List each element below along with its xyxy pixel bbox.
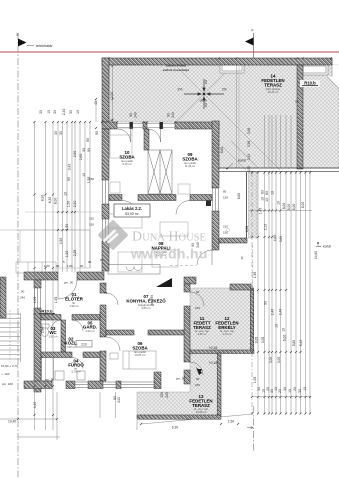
svg-text:1,95: 1,95: [253, 272, 257, 279]
svg-text:90: 90: [129, 113, 133, 117]
svg-text:90: 90: [21, 290, 25, 294]
left dims rotated: [33, 131, 91, 408]
svg-text:40: 40: [240, 256, 244, 260]
svg-text:13,98 m²: 13,98 m²: [196, 410, 207, 414]
svg-text:150: 150: [89, 223, 94, 227]
svg-text:2,00: 2,00: [110, 92, 114, 99]
svg-text:90: 90: [67, 177, 71, 181]
svg-text:150: 150: [223, 196, 228, 200]
window: bath south B: [103, 382, 116, 388]
svg-text:3,05: 3,05: [261, 337, 265, 344]
wall: room 06 bottom with window: [116, 381, 121, 389]
wall: terrace 11/12 south band: [190, 350, 254, 354]
svg-text:10: 10: [261, 197, 265, 201]
hatch strip east of dining nook: [249, 172, 258, 238]
svg-text:pm. 90: pm. 90: [45, 378, 55, 382]
drain point: [203, 93, 205, 95]
svg-text:+0,15: +0,15: [209, 361, 218, 365]
property line E: [18, 33, 27, 478]
wall: R10.b divider on terrace 14: [297, 65, 303, 169]
door arc room09 to nappali: [176, 201, 190, 215]
svg-text:240: 240: [117, 397, 121, 403]
sofa nappali upper: [104, 214, 142, 228]
svg-text:8,00: 8,00: [54, 198, 58, 205]
svg-text:3,00: 3,00: [269, 357, 273, 364]
wc toilet: [42, 328, 49, 337]
svg-text:korlát: korlát: [323, 245, 331, 249]
wall: rooms 10/09 bottom band with door gaps: [109, 195, 122, 201]
svg-text:30: 30: [257, 387, 261, 391]
white corner top right: [328, 65, 339, 88]
svg-text:2%: 2%: [222, 88, 227, 92]
svg-text:90: 90: [56, 264, 60, 268]
door arc room10 to nappali: [122, 201, 138, 217]
svg-text:3,90: 3,90: [247, 166, 251, 173]
window: right wall (80/150): [213, 188, 219, 211]
door arc nappali to dining nook: [197, 250, 212, 265]
svg-text:240: 240: [195, 306, 200, 310]
svg-text:3,40: 3,40: [247, 154, 251, 161]
svg-text:150: 150: [223, 231, 228, 235]
svg-text:2,72 m²: 2,72 m²: [222, 332, 231, 336]
svg-text:10: 10: [288, 389, 292, 393]
door arc kitchen wing to terrace 11: [190, 292, 204, 306]
svg-text:5,79 m²: 5,79 m²: [71, 370, 80, 374]
door wedge terrace13 door: [196, 367, 202, 375]
red boundary line: [0, 51, 339, 53]
svg-text:1,05: 1,05: [253, 377, 257, 384]
svg-text:6,00: 6,00: [283, 335, 287, 342]
wall: terrace 13 bottom band: [137, 353, 221, 419]
svg-text:240: 240: [165, 392, 169, 398]
svg-text:90: 90: [167, 113, 171, 117]
window: left wall upper (150): [103, 180, 109, 204]
svg-text:2,65: 2,65: [79, 154, 83, 161]
svg-text:210: 210: [223, 225, 228, 229]
terrace 14 hatch area (upper): [109, 65, 339, 168]
svg-text:90: 90: [80, 264, 84, 268]
svg-text:40: 40: [94, 101, 98, 105]
svg-text:2,50: 2,50: [73, 151, 77, 158]
svg-text:240: 240: [171, 112, 175, 118]
svg-text:pm. 90: pm. 90: [176, 377, 186, 381]
svg-text:20: 20: [293, 387, 297, 391]
wall: wc-közl / fürdő divider horizontal: [41, 352, 72, 358]
svg-text:90: 90: [86, 138, 90, 142]
neighbour counters: [16, 262, 56, 273]
window: room 06 south: [121, 382, 154, 388]
window: bath south A: [75, 382, 88, 388]
svg-text:6,56: 6,56: [245, 226, 249, 233]
terrace corner diagonals near korlat: [222, 146, 246, 170]
left tick rows: [34, 121, 92, 416]
wall: terrace 14 bottom edge: [219, 168, 339, 171]
desk room 09: [178, 184, 190, 194]
svg-text:14,60: 14,60: [314, 251, 318, 259]
svg-text:R10.b: R10.b: [304, 81, 316, 86]
svg-text:4,40: 4,40: [33, 402, 37, 409]
svg-text:10: 10: [47, 110, 51, 114]
terrace 13 hatch area: [137, 353, 221, 415]
svg-text:2,40: 2,40: [62, 109, 66, 116]
svg-text:10: 10: [82, 173, 86, 177]
left dimension witness lines: [34, 122, 36, 430]
bath sink: [77, 371, 85, 380]
terrace slope diagonal 2: [176, 66, 232, 122]
svg-text:pm. 90: pm. 90: [64, 281, 74, 285]
svg-text:4,50: 4,50: [59, 238, 63, 245]
top-left dims rotated: [39, 92, 175, 121]
bath tub: [42, 357, 54, 381]
svg-text:30: 30: [53, 110, 57, 114]
svg-text:6,60: 6,60: [237, 193, 241, 200]
svg-text:10: 10: [303, 387, 307, 391]
svg-text:1,45: 1,45: [259, 208, 263, 215]
bottom dim line terrace 13: [140, 414, 253, 429]
table nappali: [152, 250, 178, 267]
svg-text:Lakás 2.2.: Lakás 2.2.: [122, 206, 142, 211]
svg-text:telekhatár: telekhatár: [36, 44, 53, 48]
svg-text:11,05 m²: 11,05 m²: [185, 164, 196, 168]
svg-text:+0,15: +0,15: [209, 346, 218, 350]
svg-text:90: 90: [87, 148, 91, 152]
svg-text:10: 10: [64, 192, 68, 196]
svg-text:10: 10: [275, 324, 279, 328]
tiny dims above entrance wall: [44, 260, 92, 268]
bed room 06: [110, 351, 156, 369]
railing line on terrace 14: [236, 65, 238, 168]
svg-text:30: 30: [39, 110, 43, 114]
svg-text:75: 75: [104, 291, 108, 295]
wardrobe boxes with X between rooms: [148, 150, 172, 194]
svg-text:2,60: 2,60: [41, 327, 45, 334]
wall: kitchen wing east going south, door gaps: [184, 284, 190, 292]
terrace 11-12 hatch area: [190, 288, 251, 350]
door arc kitchen from entrance: [106, 293, 118, 305]
svg-text:1,60: 1,60: [67, 264, 73, 268]
vertical dims mid plan: [86, 131, 224, 403]
svg-text:1,60: 1,60: [44, 264, 50, 268]
svg-text:9,65 m²: 9,65 m²: [141, 306, 150, 310]
svg-text:10: 10: [277, 201, 281, 205]
svg-text:4,60: 4,60: [273, 235, 277, 242]
dim line inside terrace left: [112, 65, 114, 122]
svg-text:9,15 m²: 9,15 m²: [122, 162, 131, 166]
top-left dim short row: [95, 98, 103, 129]
terrace slope diagonal 1: [176, 66, 280, 170]
svg-text:1,35: 1,35: [87, 177, 91, 184]
svg-text:8,00: 8,00: [292, 204, 296, 211]
threshold lines top wall gaps: [117, 124, 175, 128]
svg-text:6,60: 6,60: [220, 147, 224, 154]
svg-text:3,05: 3,05: [255, 337, 259, 344]
svg-text:1,95 m²: 1,95 m²: [48, 334, 57, 338]
neighbour unit room outline: [20, 230, 90, 268]
svg-text:3,00: 3,00: [277, 357, 281, 364]
svg-text:4,85 m²: 4,85 m²: [197, 332, 206, 336]
svg-text:3,58: 3,58: [247, 141, 251, 148]
svg-text:2%: 2%: [178, 88, 183, 92]
svg-text:7,08 m²: 7,08 m²: [66, 345, 75, 349]
entrance door arc: [58, 280, 77, 299]
drain arrows: [184, 79, 224, 109]
wall: wc/közl divider vertical: [61, 320, 66, 352]
svg-text:30: 30: [283, 387, 287, 391]
level marker terrace 13: [197, 369, 202, 375]
section marker F top: [245, 33, 254, 64]
svg-text:90: 90: [264, 301, 268, 305]
wall: dining nook south: [219, 238, 247, 243]
svg-text:8,00: 8,00: [287, 204, 291, 211]
door 210 of közl: [76, 341, 92, 348]
kitchen stove black wedge: [156, 278, 172, 287]
svg-text:10: 10: [262, 389, 266, 393]
roof overhang dashed SE: [252, 245, 254, 300]
svg-text:13,05 m²: 13,05 m²: [135, 353, 146, 357]
wall: room06/kitchen divider horizontal: [106, 330, 134, 335]
svg-text:40,26 m²: 40,26 m²: [268, 90, 279, 94]
planter box top wall right: [301, 64, 328, 75]
svg-text:1,50: 1,50: [65, 224, 69, 231]
svg-text:6,30: 6,30: [48, 197, 52, 204]
wall: rooms block top (3 segments with 2 door gaps): [102, 122, 117, 129]
bottom-left dim lines: [0, 392, 137, 440]
kitchen counter row: [108, 265, 160, 275]
svg-text:30: 30: [59, 131, 63, 135]
svg-text:30: 30: [82, 148, 86, 152]
wall: elöter/wc-gard divider horizontal: [41, 315, 61, 321]
svg-text:83,90 m²: 83,90 m²: [125, 212, 139, 216]
wall: terrace left parapet: [102, 58, 109, 122]
bed room 10: [110, 128, 132, 158]
wall: rooms block left exterior with 2 window gaps: [102, 129, 109, 180]
svg-text:80: 80: [223, 190, 227, 194]
svg-text:210: 210: [81, 343, 87, 347]
svg-text:6,30: 6,30: [172, 426, 179, 430]
svg-text:30: 30: [54, 131, 58, 135]
door arc wc: [51, 320, 61, 330]
svg-text:2,40: 2,40: [279, 309, 283, 316]
svg-text:20: 20: [295, 100, 299, 104]
svg-text:1,20: 1,20: [65, 251, 69, 258]
window: left wall lower (150): [103, 219, 109, 241]
door arc room06: [106, 337, 120, 351]
svg-text:1,50: 1,50: [228, 420, 235, 424]
wall: dining nook east glass: [246, 172, 248, 238]
svg-text:1,45: 1,45: [54, 297, 58, 304]
svg-text:8,30: 8,30: [41, 195, 45, 202]
label R10.b terrace: [300, 80, 320, 87]
svg-text:30: 30: [298, 389, 302, 393]
svg-text:240: 240: [134, 112, 138, 118]
svg-text:2,10: 2,10: [264, 224, 268, 231]
stairs treads: [0, 310, 21, 362]
lakás 2.2 box: [114, 204, 150, 217]
svg-text:240: 240: [20, 296, 25, 300]
svg-text:20: 20: [278, 389, 282, 393]
svg-text:90: 90: [196, 377, 200, 381]
wall: entrance zone west with window: [34, 280, 41, 288]
right dims rotated cluster 3: [253, 324, 307, 393]
wall: right wall of rooms block / nappali: [212, 121, 219, 188]
right dims rotated cluster 2: [245, 224, 283, 316]
wall: entrance zone north with door gap pm.90: [24, 272, 58, 280]
svg-text:10,40: 10,40: [8, 420, 16, 424]
door arc to terrace 13: [190, 362, 203, 375]
svg-text:16,84 + 3,70: 16,84 + 3,70: [1, 364, 18, 368]
svg-text:esővíz összefolyó: esővíz összefolyó: [163, 68, 189, 72]
svg-text:1,50: 1,50: [67, 201, 71, 208]
svg-text:5,40: 5,40: [299, 340, 303, 347]
watermark logo diamond: [100, 222, 126, 248]
door arc gard: [72, 320, 83, 331]
svg-text:3,06: 3,06: [247, 128, 251, 135]
window: entrance west (90/240): [35, 288, 41, 308]
section marker F bottom dashes: [253, 406, 255, 452]
wall: terrace 11/12 east glass: [250, 288, 253, 350]
svg-text:60: 60: [265, 191, 269, 195]
svg-text:10: 10: [271, 191, 275, 195]
sofa nappali: [118, 252, 142, 272]
svg-text:2,23 m²: 2,23 m²: [85, 329, 94, 333]
right dimension witness lines: [251, 172, 253, 414]
wall: bottom exterior of entrance zone: [24, 381, 52, 389]
svg-text:2%: 2%: [204, 103, 208, 108]
svg-text:korlát: korlát: [238, 159, 246, 163]
wall: neighbour west piece: [0, 277, 6, 318]
wall: terrace top exterior: [102, 58, 332, 65]
svg-text:240: 240: [195, 383, 200, 387]
svg-text:¬. 160: ¬. 160: [1, 372, 10, 376]
svg-text:5: 5: [110, 119, 114, 121]
svg-text:www.dh.hu: www.dh.hu: [130, 247, 208, 262]
svg-text:2,99 m²: 2,99 m²: [69, 304, 78, 308]
svg-text:10: 10: [76, 110, 80, 114]
wall: divider rooms 10/09: [144, 129, 149, 150]
svg-text:5,80: 5,80: [292, 340, 296, 347]
planter box top wall left: [220, 63, 244, 73]
svg-text:3,60: 3,60: [279, 236, 283, 243]
svg-text:2%: 2%: [204, 80, 208, 85]
svg-text:pm. 160: pm. 160: [2, 382, 13, 386]
svg-text:10: 10: [265, 198, 269, 202]
label telekhatár: [27, 45, 34, 47]
wall: center vertical (entrance zone / rooms): [100, 283, 106, 293]
door arc fürdő: [72, 358, 83, 369]
ticks along top wall: [108, 57, 332, 123]
svg-text:8,00: 8,00: [301, 202, 305, 209]
bath washer: [55, 371, 64, 380]
svg-text:60: 60: [100, 258, 104, 262]
svg-text:8,00: 8,00: [282, 203, 286, 210]
wall: kitchen wing east jog: [184, 277, 196, 284]
svg-text:F: F: [252, 29, 254, 33]
right dims rotated cluster 1: [237, 128, 305, 215]
balcony door arcs rooms 10/09: [118, 129, 131, 142]
svg-text:90: 90: [95, 131, 99, 135]
svg-text:4,00: 4,00: [33, 297, 37, 304]
svg-text:150: 150: [89, 217, 94, 221]
svg-text:30: 30: [88, 260, 92, 264]
svg-text:90: 90: [196, 290, 200, 294]
svg-text:pm. 90: pm. 90: [150, 295, 154, 305]
svg-text:2,40: 2,40: [271, 309, 275, 316]
svg-text:150: 150: [160, 392, 164, 398]
svg-text:30: 30: [69, 110, 73, 114]
svg-text:60: 60: [261, 190, 265, 194]
svg-text:3,40: 3,40: [68, 164, 72, 171]
svg-text:R10.b: R10.b: [42, 309, 53, 314]
svg-text:DUNA HOUSE: DUNA HOUSE: [132, 230, 206, 245]
svg-text:16,25: 16,25: [199, 99, 207, 103]
terrace slope diagonal R10 zone: [327, 77, 339, 89]
svg-text:TERASZ: TERASZ: [264, 83, 282, 88]
door leaf post room09 door: [206, 197, 211, 206]
svg-text:2,30: 2,30: [73, 201, 77, 208]
svg-text:10: 10: [282, 328, 286, 332]
neighbour faint line: [0, 229, 90, 231]
svg-text:2,25: 2,25: [73, 250, 77, 257]
wall: NE piece of terrace 11: [230, 284, 251, 290]
watermark DUNA HOUSE: [132, 230, 206, 245]
